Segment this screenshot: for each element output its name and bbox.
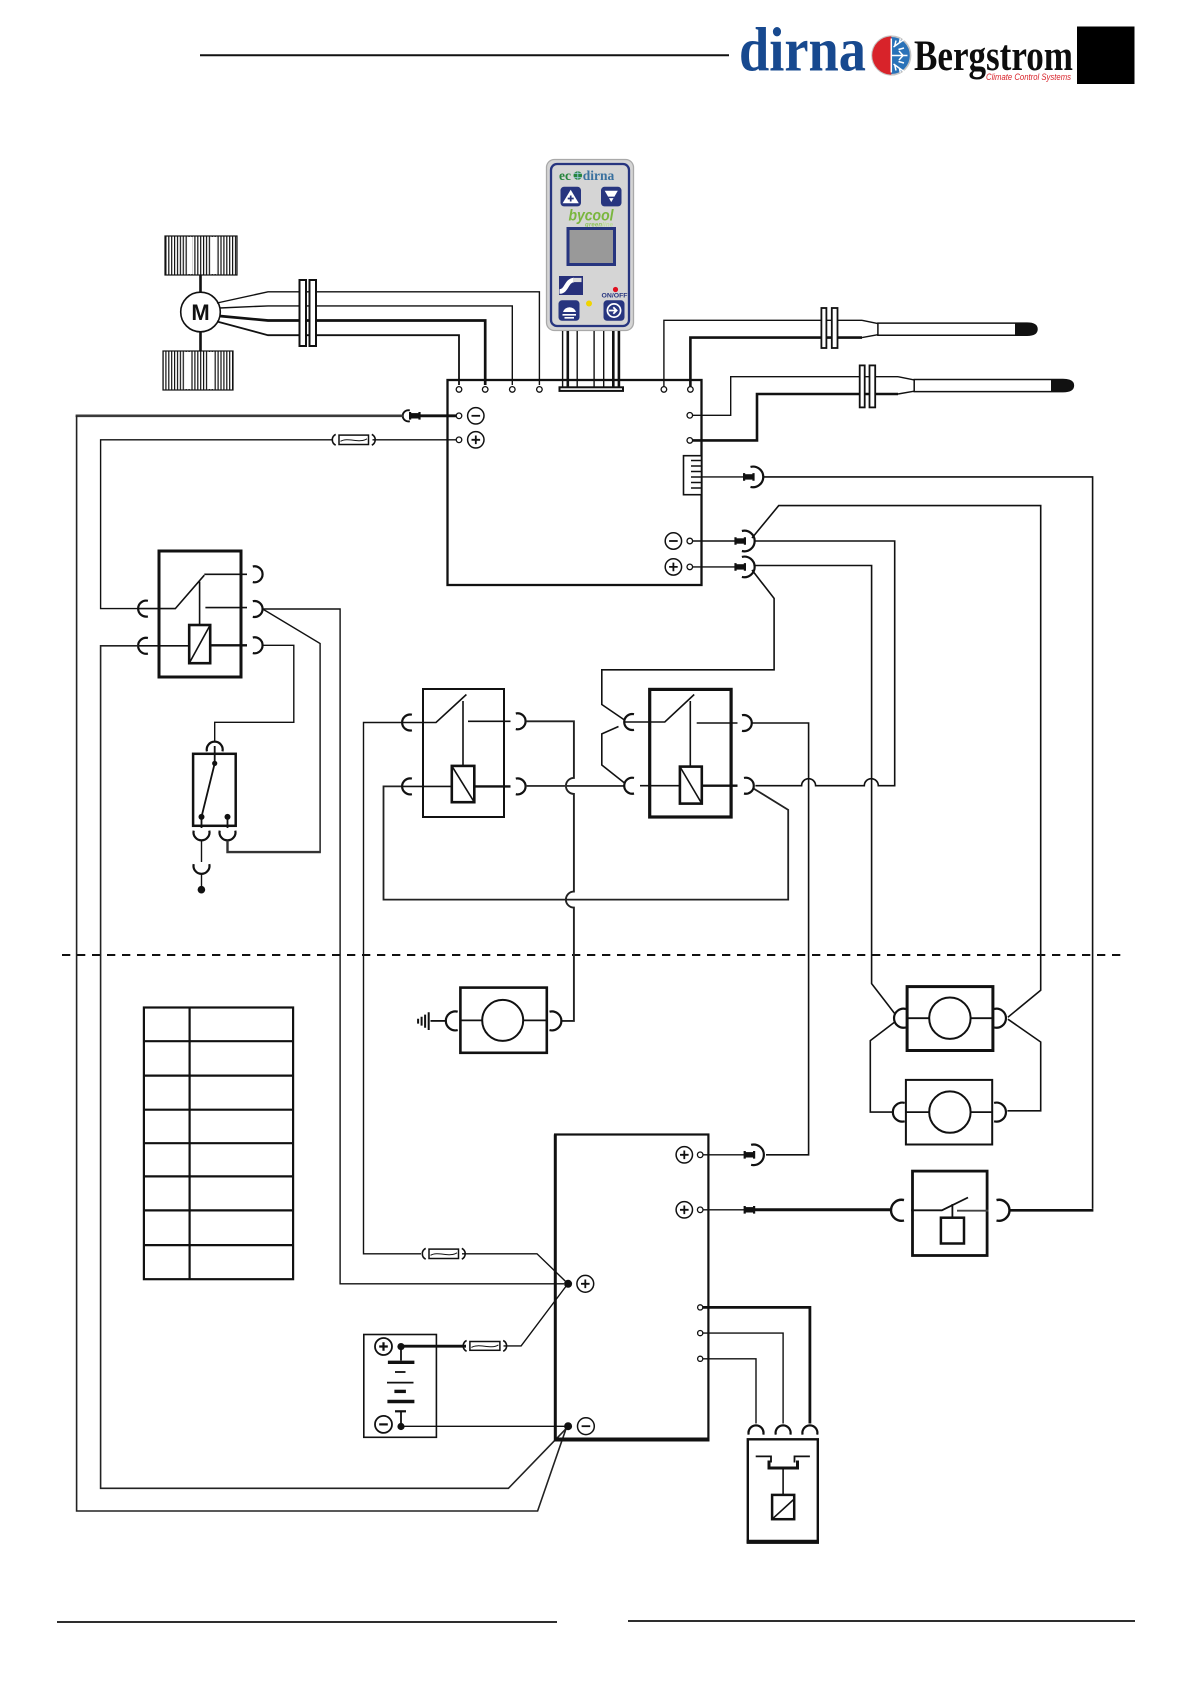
probe terminal A: [687, 413, 693, 419]
blower wire 2: [220, 306, 513, 385]
K1 coil to thermostat wire: [215, 645, 294, 741]
chassis point: [198, 886, 206, 894]
relay K1 box: [159, 551, 241, 677]
on/off button: [604, 300, 625, 321]
K3 coil to K2 coil wire: [384, 786, 789, 899]
terminal2 plug: [703, 1209, 744, 1211]
relay K1 coil: [189, 625, 210, 663]
relay K3 contact: [625, 695, 738, 767]
thermostat output wire: [228, 841, 321, 853]
relay K2 contact: [403, 695, 511, 766]
relay K2 pin arcs: [402, 715, 412, 731]
battery minus terminal: [397, 1423, 404, 1430]
legend table: [144, 1008, 293, 1280]
minus input node: [564, 1422, 572, 1430]
relay plus terminal: [687, 564, 693, 570]
battery minus symbol: [375, 1416, 392, 1433]
compressor wire 3: [703, 1359, 756, 1424]
battery box: [364, 1335, 437, 1438]
yellow LED: [586, 301, 592, 307]
relay K2 coil: [452, 766, 475, 802]
terminal plus 2: [697, 1207, 703, 1213]
blower motor M: [181, 292, 221, 332]
pressure switch signal wire: [763, 477, 1092, 1209]
condenser fan 1 box: [907, 987, 993, 1051]
diagnostic comb connector: [684, 456, 702, 495]
pressure switch contact: [911, 1198, 968, 1218]
K3 output wire: [752, 723, 809, 1155]
wire fuse to plus node: [462, 1254, 566, 1282]
pump ground wire: [431, 1020, 446, 1022]
plus symbol: [468, 432, 484, 448]
evaporator fan bottom: [163, 351, 233, 390]
condenser fan 2 motor: [929, 1091, 970, 1132]
svg-text:dirna: dirna: [583, 168, 615, 183]
relay minus terminal: [687, 538, 693, 544]
duct probe wire B: [693, 394, 898, 440]
cabin temp probe: [821, 308, 1037, 348]
compressor clutch box: [748, 1439, 818, 1542]
K2 coil interconnect: [526, 785, 625, 787]
condenser fan 1 motor: [929, 998, 970, 1039]
wire fuse2 to plus node: [504, 1286, 567, 1346]
wire comb to plug: [702, 476, 744, 478]
ecodirna logo: [559, 168, 615, 183]
minus terminal: [456, 413, 462, 419]
plus feed wire to relay K1: [101, 440, 333, 609]
condenser fan 2 box: [906, 1080, 992, 1145]
svg-text:M: M: [191, 300, 209, 325]
terminal plus 1: [697, 1152, 703, 1158]
plus terminal: [456, 437, 462, 443]
water pump box: [460, 988, 546, 1053]
battery plus terminal: [397, 1343, 404, 1350]
minus output plug: [735, 538, 746, 543]
inline connector: [194, 864, 210, 874]
svg-text:ON/OFF: ON/OFF: [602, 293, 628, 300]
compressor terminal pins: [698, 1305, 703, 1310]
plus symbol 2: [665, 559, 681, 575]
fan1 pin arcs: [894, 1009, 906, 1028]
battery positive cable: [404, 1345, 466, 1348]
relay K3 plus feed wire: [602, 570, 774, 783]
dirna globe logo: [872, 36, 911, 75]
svg-text:ec: ec: [559, 168, 571, 183]
evaporator fan top: [165, 236, 237, 275]
condenser fan2 power link: [870, 1022, 895, 1113]
duct probe wire A: [693, 377, 898, 416]
compressor wire 1: [703, 1307, 810, 1423]
svg-text:Climate Control Systems: Climate Control Systems: [986, 72, 1071, 82]
panel display: [568, 229, 615, 265]
red LED: [613, 287, 618, 292]
fan button: [559, 300, 580, 321]
bycool control panel body: [547, 160, 634, 331]
relay K3 coil: [680, 767, 702, 804]
pressure switch feed wire: [755, 1208, 892, 1211]
compressor pin arcs: [749, 1425, 764, 1434]
pump pin arcs: [446, 1011, 458, 1030]
cabin probe wire B: [690, 338, 862, 387]
footer rule right: [628, 1620, 1135, 1622]
relay K1 contact: [139, 574, 247, 625]
water pump motor: [482, 1000, 523, 1041]
ground bus wire: [76, 414, 403, 417]
fan motor shaft: [199, 275, 202, 351]
svg-text:dirna: dirna: [739, 17, 866, 85]
condenser fan power wire: [755, 566, 896, 1015]
evaporator control box: [555, 1135, 708, 1441]
relay K2 box: [423, 689, 504, 817]
fan2 pin arcs: [893, 1103, 905, 1122]
ground connector plug: [409, 413, 420, 418]
pressure switch box: [913, 1171, 988, 1255]
panel up button: [561, 187, 582, 207]
thermostat contacts: [212, 761, 217, 766]
minus symbol: [468, 408, 484, 424]
wire minus to connector: [420, 414, 456, 417]
footer rule left: [57, 1621, 557, 1623]
battery negative cable: [405, 1425, 565, 1427]
minus symbol 2: [665, 533, 681, 549]
fuse F2: [470, 1342, 500, 1351]
blower wire 3: [220, 316, 486, 385]
K1 output wire to plus node: [263, 609, 564, 1284]
thermostat pin arcs: [194, 831, 210, 841]
plus output plug: [735, 564, 746, 569]
duct temp probe: [860, 365, 1074, 407]
pressure switch pin arcs: [891, 1200, 904, 1221]
wire to chassis point: [201, 874, 203, 886]
comb output plug: [743, 474, 754, 479]
air flow icon: [559, 276, 583, 295]
pressure element: [941, 1218, 964, 1244]
main fuse: [339, 435, 369, 444]
panel down button: [601, 187, 622, 207]
top terminal pins: [456, 387, 462, 393]
main control unit box: [448, 380, 702, 585]
cabin probe wire A: [664, 320, 862, 386]
chassis ground: [418, 1012, 429, 1030]
K1 output wire to thermostat: [236, 609, 320, 852]
harness connector bar: [560, 387, 624, 391]
relay K3 box: [650, 689, 731, 817]
battery plus symbol: [375, 1338, 392, 1355]
relay K3 pin arcs: [624, 714, 634, 730]
condenser fan ground wire: [752, 506, 1041, 1018]
blower connector: [300, 280, 307, 346]
blower wire 4: [217, 322, 459, 386]
thermostat ground wire: [201, 841, 203, 863]
header rule: [200, 54, 729, 56]
compressor contacts: [756, 1456, 810, 1462]
K1 coil ground wire: [101, 646, 567, 1489]
compressor coil: [772, 1495, 794, 1519]
blower wire 1: [217, 292, 539, 385]
thermostat connector: [207, 742, 223, 752]
battery cells: [400, 1347, 402, 1361]
terminal1 plug: [703, 1154, 744, 1156]
black corner square: [1077, 27, 1135, 85]
condenser fan2 ground link: [1007, 1019, 1040, 1111]
firewall dashed line: [62, 954, 1122, 956]
wire plus to fuse: [373, 439, 457, 441]
thermostat box: [193, 754, 236, 826]
K2 pump output wire: [526, 721, 574, 1021]
plus input node: [564, 1280, 572, 1288]
fuse F1: [429, 1249, 459, 1258]
probe terminal B: [687, 438, 693, 444]
K2 feed wire: [364, 723, 422, 1254]
compressor wire 2: [703, 1333, 783, 1423]
panel harness wires: [562, 331, 564, 387]
relay coil ground wire: [755, 541, 895, 786]
relay K1 pin arcs: [138, 601, 148, 617]
